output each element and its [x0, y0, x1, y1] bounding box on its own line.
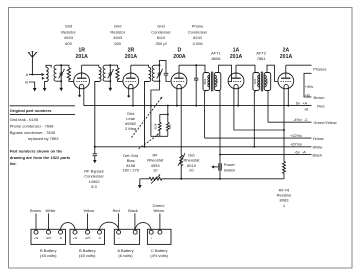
vacuum tube 2R [123, 65, 139, 105]
node -C (Green/Yellow) [293, 117, 337, 125]
label grid resistor 1 value [61, 23, 76, 46]
RF transformer T1 primary coil [45, 65, 52, 88]
svg-text:10: 10 [153, 167, 158, 172]
label tube 1A [230, 47, 243, 60]
svg-text:1A: 1A [233, 47, 240, 53]
vacuum tube 2A [278, 65, 294, 161]
junction +67.5 bus to AFT2 primary [253, 146, 255, 148]
svg-text:Black: Black [313, 152, 323, 157]
junction tube D left filament to A bus [176, 105, 178, 107]
label tube 2R [125, 47, 138, 60]
svg-text:Grid: Grid [157, 23, 165, 28]
wire +A / -B bus [84, 105, 312, 107]
wire battery lead Yellow [83, 208, 94, 230]
ground (bypass condenser) [93, 160, 97, 163]
capacitor RF bypass condenser 14902 [93, 147, 97, 160]
battery A box [114, 229, 139, 258]
svg-text:Yellow: Yellow [313, 136, 324, 141]
dashed pointer grid leak annotation [132, 97, 163, 138]
svg-text:(6 volts): (6 volts) [118, 253, 133, 258]
node +22.5v (Yellow) [290, 133, 324, 141]
svg-text:7960: 7960 [215, 78, 219, 84]
RF transformer T2 primary coil [95, 67, 101, 147]
transformer AFT1 secondary winding [214, 73, 221, 91]
svg-text:8198: 8198 [153, 123, 157, 129]
svg-text:4943: 4943 [64, 35, 74, 40]
svg-text:4943: 4943 [113, 35, 123, 40]
transformer AFT2 primary winding [253, 73, 260, 91]
svg-text:1R: 1R [78, 47, 85, 53]
svg-text:6v +A: 6v +A [296, 100, 308, 105]
svg-text:(45 volts): (45 volts) [40, 253, 57, 258]
label det grid bias annotation [122, 153, 139, 172]
label tube 2A [280, 47, 293, 60]
svg-text:Phone condenser - 7698: Phone condenser - 7698 [10, 123, 55, 128]
wire tube 2A plate to phones [286, 64, 312, 66]
svg-text:250 pf: 250 pf [155, 41, 167, 46]
RF transformer T1 secondary + tuning condenser [54, 64, 65, 88]
wire battery lead Brown [30, 208, 41, 230]
junction power switch branch to ground bus [219, 178, 221, 180]
svg-text:-6v -A: -6v -A [294, 149, 306, 154]
junction +67.5 bus to T3 primary [144, 146, 146, 148]
ground (T1 secondary) [59, 88, 63, 92]
node B [25, 80, 35, 88]
resistor R1 grid resistor 4943 [67, 68, 70, 82]
resistor R2 grid resistor 4943 [116, 68, 119, 82]
wire AFT1 secondary bottom (power switch branch) [219, 91, 221, 179]
svg-text:replaced by 7893: replaced by 7893 [28, 136, 59, 141]
svg-text:+45: +45 [73, 237, 78, 240]
antenna [28, 52, 37, 75]
svg-text:+: + [118, 237, 120, 240]
svg-text:-4½v -C: -4½v -C [293, 117, 308, 122]
wire AFT1 secondary top to tube 1A grid [219, 65, 232, 81]
wire battery lead White [46, 208, 56, 230]
svg-text:Yellow: Yellow [83, 208, 94, 213]
ground (T1 primary) [43, 88, 47, 92]
wire AFT2 secondary top to tube 2A grid [267, 65, 278, 81]
battery C box [147, 229, 171, 258]
wire tube D plate to AFT1 [179, 65, 205, 72]
wire battery lead Black [128, 208, 138, 230]
svg-text:8112: 8112 [157, 35, 166, 40]
capacitor phone condenser 8241 [194, 64, 198, 106]
svg-text:600: 600 [114, 41, 121, 46]
svg-text:Black: Black [128, 208, 138, 213]
wire secondary2 to grid resistor R2 [110, 65, 117, 67]
svg-text:1: 1 [283, 203, 286, 208]
svg-text:9350: 9350 [265, 78, 269, 84]
svg-text:201A: 201A [75, 54, 88, 60]
svg-text:Part numbers shown on the: Part numbers shown on the [10, 149, 63, 154]
phones terminal bracket [304, 67, 326, 101]
svg-text:drawing are from the 1922 part: drawing are from the 1922 parts [10, 155, 71, 160]
wire ground bus right end up to fil resistor [283, 174, 285, 179]
node +A -B (Red) [296, 100, 325, 111]
svg-text:2 Meg: 2 Meg [125, 126, 136, 131]
svg-text:2A: 2A [283, 47, 290, 53]
wire +22.5v bus [205, 137, 312, 139]
svg-text:Switch: Switch [224, 167, 235, 172]
RF transformer T3 primary coil [145, 67, 151, 147]
svg-text:201A: 201A [125, 54, 138, 60]
vacuum tube 1A [228, 65, 284, 130]
svg-text:Power: Power [224, 162, 236, 167]
wire secondary1 to grid resistor [61, 65, 69, 67]
wire AFT2 secondary bottom to C bias line [267, 91, 269, 123]
label RF fil resistor [277, 187, 292, 208]
svg-text:D: D [178, 47, 182, 53]
svg-text:-B: -B [304, 107, 308, 112]
transformer AFT2 secondary winding [264, 73, 271, 91]
RF transformer T2 secondary + tuning condenser [103, 64, 114, 88]
filament terminal dot tube 2R [128, 95, 130, 97]
junction +67.5 bus left end / bypass condenser [94, 146, 96, 148]
svg-text:Grid leak - 6195: Grid leak - 6195 [10, 117, 39, 122]
label RF bypass condenser [84, 168, 104, 189]
wire -6v -A line [220, 154, 312, 156]
svg-text:8604: 8604 [203, 78, 207, 84]
svg-text:AFT1: AFT1 [211, 51, 222, 56]
node +67.5v (White) [290, 142, 322, 150]
wire tube 2R plate to T3 [131, 65, 149, 67]
RF transformer T3 secondary + tuning condenser [152, 64, 163, 82]
label grid leak annotation [125, 111, 137, 131]
svg-text:White: White [313, 145, 323, 150]
svg-text:Bypass condenser - 7845: Bypass condenser - 7845 [10, 130, 56, 135]
svg-text:+22½: +22½ [45, 236, 51, 240]
svg-text:7861: 7861 [257, 56, 267, 61]
note 1922 parts list block [10, 149, 71, 166]
svg-text:-: - [160, 237, 161, 240]
filament terminal dot tube 1R [78, 95, 80, 97]
label AFT1 [211, 51, 222, 61]
junction tube 1A filament line to tube 2A filament line [283, 129, 285, 131]
svg-text:Brown: Brown [314, 95, 325, 100]
svg-text:600: 600 [65, 41, 72, 46]
transformer AFT1 core [211, 72, 212, 92]
svg-text:200A: 200A [173, 54, 186, 60]
wire AFT1 primary bottom to +22 bus [204, 91, 206, 139]
svg-text:201A: 201A [230, 54, 243, 60]
junction tube 2R filament to A bus [132, 105, 134, 107]
battery B2 box [70, 229, 105, 258]
svg-text:8608: 8608 [211, 56, 221, 61]
wire jumper B1 to B2 [61, 223, 76, 231]
junction tube 1A right filament to A bus [237, 105, 239, 107]
wire jumper A to C [135, 223, 151, 231]
svg-text:Original part numbers: Original part numbers [10, 108, 53, 113]
dashed pointer det grid bias annotation [139, 133, 160, 149]
svg-text:+22½v: +22½v [290, 133, 302, 138]
label det rheostat [183, 153, 200, 173]
svg-text:+22½: +22½ [84, 236, 90, 240]
switch power switch [211, 162, 235, 172]
svg-text:+67½v: +67½v [290, 142, 302, 147]
label tube D [173, 47, 186, 60]
svg-text:Green/Yellow: Green/Yellow [314, 120, 337, 125]
label RF rheostat [147, 153, 164, 173]
wire AFT2 primary bottom to +67 bus [253, 91, 256, 147]
resistor det grid bias 8198 network [150, 105, 172, 137]
svg-text:(4½ volts): (4½ volts) [150, 253, 168, 258]
svg-text:Resistor: Resistor [61, 29, 76, 34]
wire R2 to tube 2R grid [118, 81, 123, 83]
label tube 1R [75, 47, 88, 60]
rheostat RF rheostat 4093 on ground bus [149, 174, 162, 184]
svg-text:2R: 2R [128, 47, 135, 53]
wire R1 to tube 1R grid [69, 81, 74, 83]
battery B1 box [31, 229, 66, 258]
svg-text:+: + [150, 237, 152, 240]
transformer AFT1 primary winding [203, 73, 210, 91]
transformer AFT2 core [261, 72, 262, 92]
rheostat det rheostat 8010 on tube D filament drop [178, 153, 185, 179]
wire jumper B2 to A [100, 222, 119, 230]
svg-text:+90v: +90v [305, 84, 314, 89]
svg-text:B: B [25, 80, 28, 85]
label grid resistor 2 value [110, 23, 125, 46]
svg-text:160 / 270: 160 / 270 [122, 167, 139, 172]
svg-text:Phones: Phones [313, 67, 326, 72]
svg-text:White: White [46, 208, 56, 213]
svg-text:list.: list. [10, 161, 17, 166]
svg-text:Red: Red [113, 208, 120, 213]
svg-text:Phone: Phone [192, 23, 204, 28]
svg-text:20: 20 [189, 167, 194, 172]
wire tube 1A plate to AFT2 [236, 65, 255, 72]
svg-text:6.3: 6.3 [91, 184, 97, 189]
svg-text:-: - [135, 237, 136, 240]
svg-text:0.006: 0.006 [193, 41, 204, 46]
vacuum tube D detector [171, 65, 187, 155]
ground (A- bus) [138, 185, 142, 189]
junction tube 2A right filament to A bus [287, 105, 289, 107]
ground (T2 secondary) [108, 88, 112, 92]
op-amp? no: vacuum tube 1R [74, 65, 90, 105]
wire ground bus (A-) [140, 179, 284, 185]
svg-text:A: A [26, 72, 29, 77]
svg-text:Red: Red [317, 103, 324, 108]
svg-text:-B: -B [59, 237, 62, 240]
wire +67.5v bus [95, 146, 312, 148]
svg-text:Yellow: Yellow [153, 208, 164, 213]
wire secondary3 bottom to A bus [151, 81, 160, 105]
svg-text:AFT2: AFT2 [256, 51, 267, 56]
capacitor grid condenser 8112 [159, 60, 171, 81]
note original part numbers block [10, 106, 75, 141]
wire battery lead Green/Yellow [153, 203, 166, 230]
resistor RF fil resistor 8083 [283, 161, 286, 173]
svg-text:(45 volts): (45 volts) [79, 253, 96, 258]
wire tube 1R plate to T2 [82, 65, 99, 67]
svg-text:Grid: Grid [114, 23, 122, 28]
svg-text:Grid: Grid [65, 23, 73, 28]
svg-text:Condenser: Condenser [188, 29, 208, 34]
wire battery lead Red [113, 208, 120, 230]
svg-text:881: 881 [168, 124, 172, 129]
svg-text:8241: 8241 [193, 35, 203, 40]
svg-text:Condenser: Condenser [151, 29, 171, 34]
label grid condenser value [151, 23, 171, 46]
label phone condenser value [188, 23, 208, 46]
svg-text:-B: -B [98, 237, 101, 240]
svg-text:201A: 201A [280, 54, 293, 60]
node -6v -A (Black) [294, 149, 322, 157]
svg-text:+45: +45 [34, 237, 39, 240]
node A [26, 72, 45, 80]
svg-text:1180: 1180 [253, 78, 257, 84]
label AFT2 [256, 51, 267, 61]
svg-text:Resistor: Resistor [110, 29, 125, 34]
svg-text:Brown: Brown [30, 208, 41, 213]
ground (B terminal) [33, 88, 37, 92]
svg-text:+B: +B [305, 92, 310, 97]
wire -C bias line [268, 121, 312, 123]
junction -A line to power switch branch [219, 154, 221, 156]
junction det rheostat to ground bus [180, 178, 182, 180]
